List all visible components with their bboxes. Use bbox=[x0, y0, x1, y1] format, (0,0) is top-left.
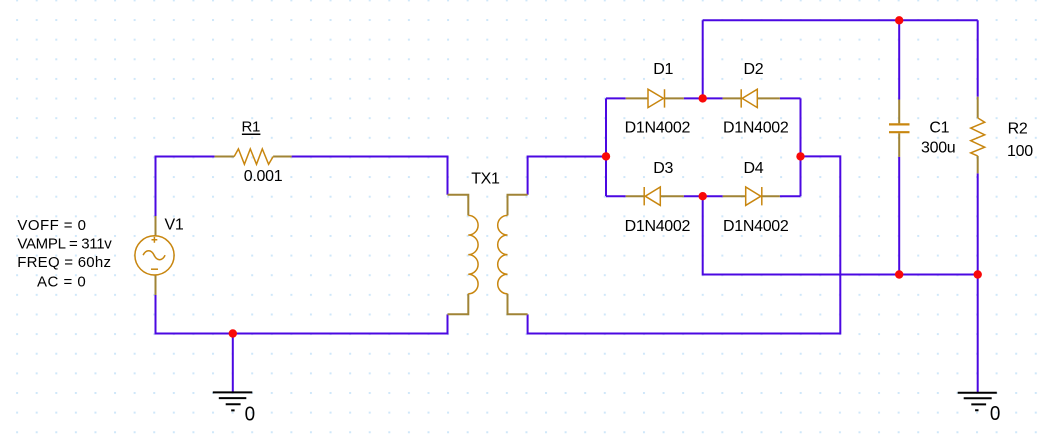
svg-text:VAMPL = 311v: VAMPL = 311v bbox=[17, 235, 112, 252]
svg-text:FREQ = 60hz: FREQ = 60hz bbox=[17, 254, 111, 271]
svg-text:D1N4002: D1N4002 bbox=[723, 218, 789, 235]
svg-text:0: 0 bbox=[990, 403, 1001, 425]
svg-text:D1N4002: D1N4002 bbox=[723, 119, 789, 136]
svg-text:V1: V1 bbox=[165, 217, 184, 234]
svg-text:D4: D4 bbox=[744, 160, 764, 177]
svg-text:AC = 0: AC = 0 bbox=[37, 274, 86, 291]
svg-text:D1: D1 bbox=[653, 61, 673, 78]
svg-text:VOFF = 0: VOFF = 0 bbox=[17, 217, 86, 234]
svg-text:C1: C1 bbox=[929, 120, 949, 137]
svg-text:D2: D2 bbox=[744, 61, 764, 78]
svg-text:R2: R2 bbox=[1008, 120, 1028, 137]
svg-text:R1: R1 bbox=[242, 118, 261, 135]
svg-text:0: 0 bbox=[245, 403, 256, 425]
svg-text:D1N4002: D1N4002 bbox=[625, 119, 691, 136]
svg-text:D3: D3 bbox=[653, 160, 673, 177]
svg-text:0.001: 0.001 bbox=[244, 168, 283, 185]
svg-text:100: 100 bbox=[1007, 143, 1033, 160]
svg-text:D1N4002: D1N4002 bbox=[625, 218, 691, 235]
svg-text:TX1: TX1 bbox=[471, 171, 500, 188]
svg-text:300u: 300u bbox=[921, 139, 955, 156]
